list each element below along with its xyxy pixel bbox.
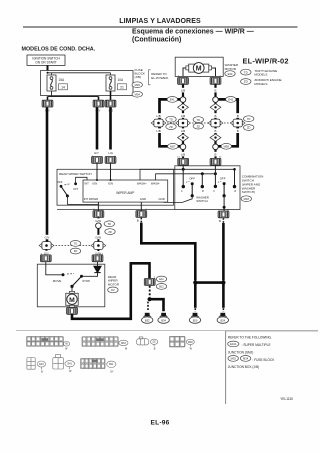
svg-text:TD: TD <box>247 117 251 121</box>
wire washer right column B <box>214 85 216 159</box>
id oval pair lower TD <box>70 241 80 247</box>
refer following box texts <box>228 336 275 370</box>
connector circle int wiper <box>96 223 102 229</box>
svg-text:L/B: L/B <box>156 114 160 118</box>
svg-text:D2: D2 <box>111 288 115 292</box>
svg-text:ZD: ZD <box>197 124 201 128</box>
junction dot line B R1 <box>201 172 204 175</box>
fold line <box>225 331 227 404</box>
connector id oval M34 <box>132 91 142 97</box>
connector L/G <box>105 100 116 107</box>
wire motor right terminal <box>212 68 216 76</box>
wire motor ground elbow route <box>72 263 150 319</box>
svg-text:R: R <box>202 190 204 193</box>
connector id oval M33 <box>132 82 142 88</box>
svg-text:L/B: L/B <box>181 153 185 157</box>
wire INT WIPER down <box>97 202 99 211</box>
wire IGN1 into amp <box>96 163 98 180</box>
wire IGN2 into amp <box>110 163 112 180</box>
id oval pair 3 ZD <box>244 125 254 131</box>
wire GND pin down <box>140 202 142 211</box>
fuse F1 15A <box>47 75 56 91</box>
junction dot B <box>221 281 225 285</box>
joint diamond right upper <box>210 104 221 111</box>
wire conn13 to F1 <box>182 165 184 186</box>
connector motor bottom <box>67 308 78 315</box>
wire R2 riser <box>234 169 236 186</box>
svg-text:L/G: L/G <box>108 151 113 155</box>
svg-text:21: 21 <box>120 85 124 89</box>
label G/Y above joint <box>42 235 53 240</box>
strip top rule <box>16 330 226 332</box>
svg-text:YEL1130: YEL1130 <box>280 397 293 401</box>
svg-text:B: B <box>154 348 156 351</box>
svg-text:L/B: L/B <box>181 129 185 133</box>
svg-text:W: W <box>190 348 193 351</box>
junction dot box bottom <box>223 206 226 209</box>
switch common contact <box>66 194 69 197</box>
svg-text:TD: TD <box>169 117 173 121</box>
joint diamond left upper <box>178 104 189 111</box>
svg-text:OFF: OFF <box>57 180 63 184</box>
washer switch 2 common <box>223 194 226 197</box>
wire pin2 to diode <box>97 262 99 266</box>
connector id oval E43 <box>225 71 235 77</box>
dashed joint line <box>164 122 178 124</box>
svg-text:M33: M33 <box>231 357 237 361</box>
wire washer sw1 common to amp GND2 <box>164 196 193 203</box>
svg-text:B: B <box>41 370 43 373</box>
joint connector col1 <box>151 119 166 127</box>
switch arm motor <box>72 277 81 287</box>
diode D1 <box>94 266 101 272</box>
svg-text:EL-96: EL-96 <box>151 420 170 427</box>
rear wiper motor M2 <box>66 291 78 307</box>
connector comb switch pin 13 <box>178 158 189 165</box>
svg-text:D2: D2 <box>153 341 157 344</box>
rear wiper motor box <box>37 264 105 307</box>
legend oval ZD <box>241 79 251 85</box>
svg-text:14: 14 <box>61 85 65 89</box>
washer motor M1 <box>186 63 212 74</box>
id oval E11 <box>156 276 166 282</box>
svg-text:B: B <box>215 153 217 157</box>
ground B20 <box>189 313 200 324</box>
refer oval E101 <box>228 341 239 347</box>
wiper amp inner box <box>83 180 168 202</box>
fuse F2 10A <box>106 75 115 91</box>
connector face C7 <box>81 358 116 368</box>
legend oval TD <box>241 69 251 75</box>
connector amp INT WIPER out <box>93 211 104 218</box>
wire fuse2 to connector <box>110 91 112 101</box>
wire washer sw2 common down <box>223 196 225 211</box>
connector amp GND out <box>136 211 147 218</box>
wire L/G to wiper amp <box>109 107 112 149</box>
connector mid G/Y <box>93 100 104 107</box>
contact common motor <box>70 285 73 288</box>
switch contact OFF <box>60 185 63 188</box>
wire common to motor <box>71 287 73 292</box>
svg-text:R: R <box>234 190 236 193</box>
svg-text:GY: GY <box>110 370 114 373</box>
svg-text:W: W <box>69 370 72 373</box>
wire thick branch left top <box>160 99 181 146</box>
svg-text:M33: M33 <box>121 342 126 345</box>
connector face C1 <box>27 336 70 346</box>
label 14 boxed <box>59 84 68 90</box>
joint connector G/W <box>91 242 106 250</box>
wire conn12 to F2 <box>214 165 216 186</box>
connector id oval E42 <box>226 97 236 103</box>
svg-text:M58: M58 <box>224 145 230 149</box>
connector amp IGN2 <box>105 157 116 164</box>
svg-text:12: 12 <box>219 157 222 159</box>
svg-text:L/B: L/B <box>156 129 160 133</box>
joint diamond right lower <box>210 134 221 141</box>
connector circle left lower <box>180 144 186 150</box>
contact MOVE <box>62 273 65 276</box>
connector face C3 <box>136 337 157 347</box>
joint diamond left lower <box>178 134 189 141</box>
svg-text:GND: GND <box>159 197 165 201</box>
wire common to INT WIPER <box>67 196 98 204</box>
svg-text:REFER TO THE FOLLOWING.: REFER TO THE FOLLOWING. <box>228 336 272 340</box>
svg-text:M57: M57 <box>170 145 176 149</box>
svg-text:WIPER AMP: WIPER AMP <box>116 191 134 195</box>
connector rear motor pin2 <box>92 255 103 262</box>
ignition switch box <box>27 55 65 65</box>
connector face C5 <box>27 358 46 370</box>
svg-text:W: W <box>125 348 128 351</box>
svg-text:G/W: G/W <box>95 219 101 223</box>
svg-text:Esquema de conexiones — WIP/R: Esquema de conexiones — WIP/R — <box>132 29 254 36</box>
washer motor box <box>175 57 223 76</box>
connector circle right top <box>213 97 219 103</box>
switch contact INT <box>74 182 77 185</box>
svg-text:STOP: STOP <box>82 279 90 283</box>
junction dot ground left <box>148 297 152 301</box>
svg-text:IGN: IGN <box>108 182 113 186</box>
wire washer left column L/B <box>182 85 184 159</box>
svg-text:TD: TD <box>108 222 112 226</box>
svg-text:B11: B11 <box>159 285 164 289</box>
svg-text:TD: TD <box>74 242 78 246</box>
id oval pair TD <box>104 221 114 227</box>
junction dot A <box>193 281 197 285</box>
connector rear motor pin1 <box>40 255 51 262</box>
svg-text:E41: E41 <box>170 98 175 102</box>
svg-text:B20: B20 <box>193 318 198 322</box>
svg-text:ZD: ZD <box>108 230 112 234</box>
id oval pair 1 TD <box>166 116 176 122</box>
svg-text:ZD: ZD <box>169 125 173 129</box>
connector comb switch bottom pin 11 <box>218 211 229 218</box>
svg-text:MODELS: MODELS <box>254 82 267 86</box>
wire G/Y to motor conn <box>46 239 49 244</box>
svg-text:OFF: OFF <box>189 176 195 180</box>
junction dot line B conn12 <box>214 172 217 175</box>
svg-text:B24: B24 <box>220 318 225 322</box>
svg-text:REAR WIPER SWITCH: REAR WIPER SWITCH <box>59 172 92 176</box>
wire amp GND thick route <box>141 223 195 281</box>
switch arm <box>61 187 67 196</box>
dashed joint line lower <box>53 245 93 247</box>
id oval pair ZD <box>105 229 115 235</box>
svg-text:JUNCTION (SMJ): JUNCTION (SMJ) <box>228 350 254 354</box>
connector comb switch pin 12 <box>210 158 221 165</box>
svg-text:: SUPER MULTIPLE: : SUPER MULTIPLE <box>242 343 271 347</box>
svg-text:E43: E43 <box>39 363 44 366</box>
fuse block box <box>41 71 134 96</box>
wire INT WIPER column G/W <box>97 218 99 255</box>
washer switch 1 dash <box>186 180 189 183</box>
svg-text:(J/B): (J/B) <box>135 75 142 79</box>
svg-text:(Continuación): (Continuación) <box>132 37 181 44</box>
washer switch 2 dash <box>218 180 221 183</box>
id oval pair 2 TD <box>193 117 203 123</box>
wire amp GND dotted <box>140 218 142 223</box>
wiper amp unit outer box <box>57 169 174 205</box>
connector circle right lower <box>213 144 219 150</box>
ground B34 <box>158 313 169 324</box>
wire comb common dotted <box>222 218 224 223</box>
svg-text:MODELOS DE COND. DCHA.: MODELOS DE COND. DCHA. <box>22 47 96 53</box>
wire WASH- line B <box>156 174 216 180</box>
svg-text:B: B <box>237 129 239 133</box>
wire G/Y to wiper amp <box>96 107 99 149</box>
wire diode to STOP <box>83 273 98 277</box>
svg-text:WASH-: WASH- <box>151 182 160 186</box>
washer switch 1 contacts <box>182 185 185 188</box>
wire dotted to junction <box>149 286 151 297</box>
svg-text:SWITCH: SWITCH <box>196 199 207 203</box>
washer switch 2 arm <box>223 184 225 196</box>
wire dot A down <box>194 283 197 308</box>
svg-text:L/B: L/B <box>181 89 185 93</box>
svg-text:B: B <box>237 114 239 118</box>
svg-text:E42: E42 <box>228 98 233 102</box>
svg-text:M18: M18 <box>188 341 193 344</box>
connector id oval M57 <box>168 143 178 149</box>
svg-text:B: B <box>215 129 217 133</box>
washer switch 1 common <box>191 194 194 197</box>
wire INT to amp <box>76 177 87 183</box>
id oval B11 <box>156 284 166 290</box>
svg-text:: FUSE BLOCK: : FUSE BLOCK <box>252 358 275 362</box>
connector washer motor stub left pin 1 <box>178 78 189 85</box>
svg-text:E43: E43 <box>228 72 233 76</box>
svg-text:B: B <box>215 114 217 118</box>
svg-text:JUNCTION BOX (J/B): JUNCTION BOX (J/B) <box>228 365 259 369</box>
joint connector col2 <box>176 119 191 127</box>
wire dotted to ground1 <box>147 302 149 312</box>
svg-text:ZD: ZD <box>247 126 251 130</box>
svg-text:TD: TD <box>197 118 201 122</box>
joint connector G/Y <box>39 242 54 250</box>
svg-text:W: W <box>65 348 68 351</box>
svg-text:E11: E11 <box>159 277 164 281</box>
svg-text:G/W: G/W <box>95 235 101 239</box>
svg-text:M: M <box>196 66 202 73</box>
svg-text:OFF: OFF <box>220 176 226 180</box>
id oval pair 1 ZD <box>166 124 176 130</box>
enclosing bottom line <box>57 209 175 211</box>
washer switch 2 contacts <box>214 185 217 188</box>
svg-text:MODELS: MODELS <box>254 73 267 77</box>
svg-text:L/B: L/B <box>181 114 185 118</box>
svg-text:B32: B32 <box>145 318 150 322</box>
svg-text:B: B <box>219 219 221 223</box>
wire thick branch right top <box>218 99 237 146</box>
ground B32 <box>142 313 153 324</box>
svg-text:INT: INT <box>73 187 78 191</box>
svg-text:GND: GND <box>140 197 146 201</box>
svg-text:IGN: IGN <box>92 182 97 186</box>
svg-text:LIMPIAS Y LAVADORES: LIMPIAS Y LAVADORES <box>119 18 201 25</box>
id oval pair 3 TD <box>244 116 254 122</box>
header rule <box>23 26 298 28</box>
switch dash <box>65 184 71 185</box>
svg-text:E41: E41 <box>68 363 73 366</box>
connector amp IGN1 <box>92 157 103 164</box>
svg-text:G/Y: G/Y <box>45 235 50 239</box>
combination switch box <box>175 166 240 210</box>
connector inline D/B <box>144 279 155 286</box>
svg-text:MOVE: MOVE <box>53 279 62 283</box>
svg-text:EL-POWER.: EL-POWER. <box>151 76 169 80</box>
svg-text:INT WIPER: INT WIPER <box>84 197 98 201</box>
junction dot line A conn13 <box>182 168 185 171</box>
switch dash <box>67 273 74 275</box>
wire H bridge <box>195 281 223 284</box>
brace refer to el-power <box>149 70 151 85</box>
wire WASH+ line A <box>140 169 235 180</box>
contact STOP <box>80 275 83 278</box>
connector washer motor stub right pin 2 <box>210 78 221 85</box>
svg-text:M: M <box>69 297 75 304</box>
label gaps <box>153 88 243 157</box>
label 21 boxed <box>118 84 127 90</box>
connector face C2 <box>82 337 128 347</box>
svg-text:MOTOR: MOTOR <box>108 283 120 287</box>
refer oval M33 <box>228 356 238 362</box>
svg-text:M34: M34 <box>243 357 249 361</box>
id oval pair lower ZD <box>70 248 80 254</box>
svg-text:EL-WIP/R-02: EL-WIP/R-02 <box>243 57 289 66</box>
svg-text:M34: M34 <box>135 92 141 96</box>
svg-text:ON OR START: ON OR START <box>35 61 57 65</box>
joint connector col3 <box>208 119 223 127</box>
svg-text:15A: 15A <box>59 78 66 82</box>
svg-text:10A: 10A <box>118 78 125 82</box>
svg-text:ZD: ZD <box>74 249 78 253</box>
connector id oval M58 <box>221 143 231 149</box>
connector face C4 <box>169 336 194 347</box>
svg-text:B: B <box>137 219 139 223</box>
wire comb common thick <box>222 223 225 281</box>
wire pin1 to MOVE <box>46 262 62 275</box>
connector face C6 <box>53 354 75 369</box>
svg-text:SWITCH): SWITCH) <box>242 190 255 194</box>
refer oval M34 <box>240 356 250 362</box>
svg-text:B34: B34 <box>161 318 166 322</box>
wire internal bus <box>48 72 111 74</box>
svg-text:WASH+: WASH+ <box>137 182 147 186</box>
connector id oval E41 <box>167 97 177 103</box>
svg-text:M33: M33 <box>135 83 141 87</box>
svg-text:F: F <box>213 190 215 193</box>
id oval pair 2 ZD <box>193 123 203 129</box>
svg-text:G/Y: G/Y <box>94 151 99 155</box>
connector circle left top <box>180 97 186 103</box>
svg-text:M18: M18 <box>244 197 250 201</box>
connector id oval M18 <box>241 196 251 202</box>
joint connector col4 <box>230 119 245 127</box>
wire junction to ground2 <box>150 299 164 311</box>
svg-text:MOTOR: MOTOR <box>225 67 237 71</box>
svg-text:B: B <box>215 89 217 93</box>
wire long G/Y left <box>46 107 49 237</box>
svg-text:W: W <box>65 343 68 346</box>
svg-text:INT: INT <box>84 182 89 186</box>
wire R1 riser <box>201 174 203 187</box>
washer switch 1 arm <box>191 184 193 196</box>
connector below fuse1 <box>42 100 53 107</box>
ground B24 <box>217 313 228 324</box>
svg-text:B11: B11 <box>109 363 114 366</box>
wire motor left terminal <box>183 68 186 76</box>
strip oval labels <box>39 341 193 374</box>
wire ignition to fuse block <box>47 65 49 73</box>
svg-text:F: F <box>181 190 183 193</box>
connector id oval D2 <box>108 287 118 293</box>
svg-text:E101: E101 <box>230 342 237 346</box>
wire dot B down <box>222 283 225 308</box>
wire fuse1 to connectors <box>51 91 53 97</box>
